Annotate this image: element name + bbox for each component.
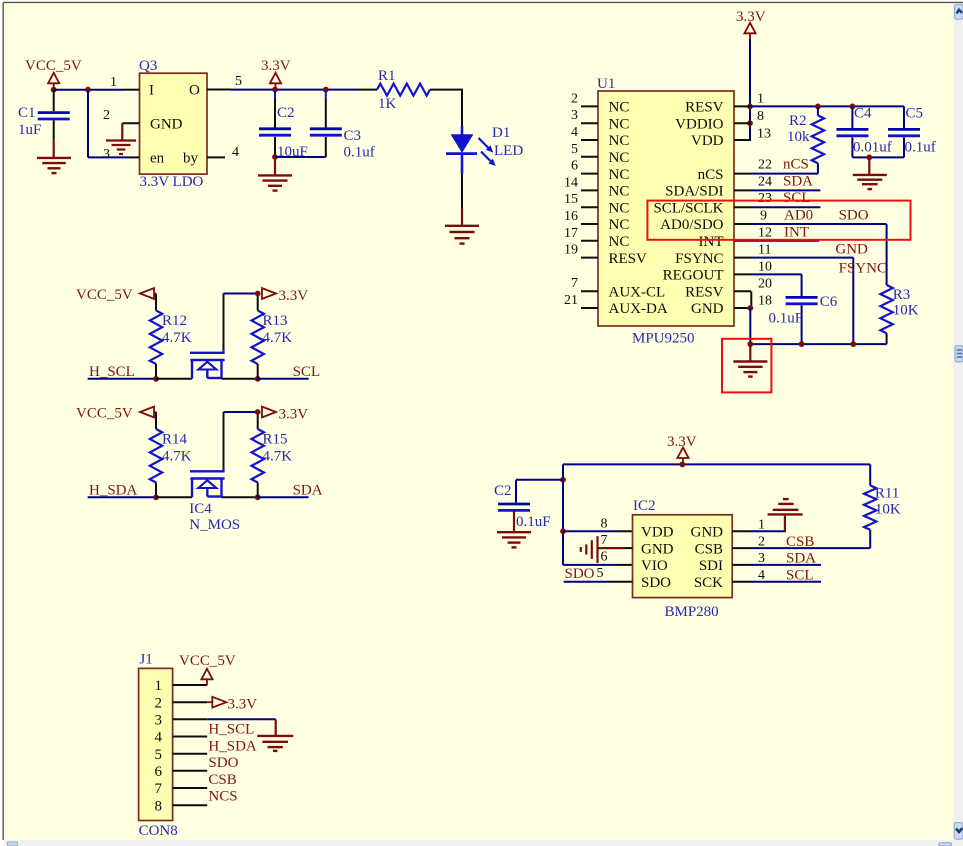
svg-text:4: 4 bbox=[232, 145, 239, 160]
junction SCL node bbox=[255, 376, 261, 382]
svg-text:SCK: SCK bbox=[694, 575, 723, 591]
net label SCL bbox=[783, 190, 811, 206]
svg-text:3.3V: 3.3V bbox=[667, 434, 697, 450]
svg-text:5: 5 bbox=[155, 747, 163, 763]
pin number 2 (Q3) bbox=[103, 108, 110, 123]
pin number 6 (IC2) bbox=[601, 550, 608, 565]
comment BMP280 bbox=[665, 604, 719, 620]
svg-text:16: 16 bbox=[564, 209, 578, 224]
svg-text:VCC_5V: VCC_5V bbox=[179, 653, 236, 669]
wire GND rail bbox=[750, 308, 886, 344]
IC2 pin1 stub bbox=[732, 530, 749, 532]
designator Q3 bbox=[139, 58, 157, 74]
Q3 pin name en bbox=[150, 151, 165, 167]
svg-text:11: 11 bbox=[758, 243, 771, 258]
comment 3.3V LDO bbox=[140, 174, 204, 190]
junction at Q3 input branch bbox=[85, 87, 91, 93]
IC2 pin name GND bbox=[641, 541, 674, 557]
IC2 pin name VIO bbox=[641, 558, 668, 574]
label R3 bbox=[893, 287, 911, 303]
U1 left pin numbers bbox=[564, 91, 578, 308]
svg-text:17: 17 bbox=[564, 226, 578, 241]
svg-text:INT: INT bbox=[699, 234, 724, 250]
wire SCL bbox=[258, 378, 309, 380]
svg-text:I: I bbox=[149, 83, 154, 99]
wire VCC to R12 bbox=[155, 294, 157, 311]
svg-text:SDA: SDA bbox=[783, 174, 813, 190]
svg-text:VDD: VDD bbox=[641, 525, 674, 541]
svg-text:H_SCL: H_SCL bbox=[208, 722, 254, 738]
capacitor C3 bbox=[310, 90, 342, 157]
pin number 13 (U1) bbox=[757, 127, 771, 142]
svg-text:IC2: IC2 bbox=[633, 498, 656, 514]
wire LED to ground bbox=[461, 174, 463, 226]
svg-text:3: 3 bbox=[155, 713, 163, 729]
U1 left pin stubs bbox=[581, 106, 598, 308]
power label VCC_5V (J1) bbox=[179, 653, 236, 669]
IC IC2 body bbox=[633, 515, 733, 598]
svg-text:by: by bbox=[183, 151, 199, 167]
junction H_SDA node bbox=[153, 494, 159, 500]
svg-text:0.01uf: 0.01uf bbox=[853, 140, 892, 156]
junction rail at FSYNC bbox=[850, 341, 856, 347]
Q3 pin name I bbox=[149, 83, 154, 99]
power label 3.3V at C2 bbox=[261, 58, 291, 74]
net label nCS bbox=[783, 157, 809, 173]
svg-text:AUX-CL: AUX-CL bbox=[609, 284, 666, 300]
pin number 5 (Q3) bbox=[235, 74, 242, 89]
junction 3.3V BMP bbox=[680, 462, 686, 468]
wire H_SCL bbox=[88, 378, 156, 380]
regulator U Q3 body bbox=[140, 73, 208, 174]
label C2 (BMP) bbox=[494, 483, 512, 499]
capacitor C1 bbox=[38, 90, 70, 158]
svg-text:8: 8 bbox=[155, 798, 163, 814]
svg-text:C2: C2 bbox=[494, 483, 512, 499]
svg-text:O: O bbox=[189, 83, 200, 99]
resistor R3 bbox=[880, 285, 892, 344]
capacitor C2 bbox=[259, 90, 291, 157]
svg-text:VCC_5V: VCC_5V bbox=[76, 406, 133, 422]
pin number 24 bbox=[758, 175, 772, 190]
svg-text:3.3V: 3.3V bbox=[228, 697, 258, 713]
svg-text:1K: 1K bbox=[378, 96, 397, 112]
net label SDO (J1) bbox=[208, 755, 238, 771]
power symbol VCC_5V arrow (H_SDA) bbox=[140, 407, 156, 418]
svg-text:1: 1 bbox=[757, 92, 764, 107]
junction at C2 bottom bbox=[272, 154, 278, 160]
IC2 pin7 stub bbox=[625, 547, 633, 549]
power label VCC_5V (H_SCL) bbox=[76, 287, 133, 303]
svg-text:SDO: SDO bbox=[565, 566, 595, 582]
scrollbar button up bbox=[955, 4, 963, 19]
svg-text:CSB: CSB bbox=[695, 541, 723, 557]
svg-text:18: 18 bbox=[758, 294, 772, 309]
comment CON8 bbox=[139, 823, 178, 839]
junction VDD branch bbox=[560, 528, 566, 534]
label 0.1uf bbox=[344, 145, 375, 161]
svg-text:NC: NC bbox=[609, 150, 630, 166]
label 1uF bbox=[18, 122, 41, 138]
wire to VDD pin8 bbox=[563, 530, 633, 532]
net label INT bbox=[784, 225, 809, 241]
pin number 18 bbox=[758, 294, 772, 309]
svg-text:GND: GND bbox=[691, 525, 724, 541]
svg-text:0.1uF: 0.1uF bbox=[516, 514, 551, 530]
power symbol 3.3V arrow (SCL) bbox=[262, 288, 276, 299]
designator J1 bbox=[139, 652, 152, 668]
svg-text:NC: NC bbox=[609, 133, 630, 149]
label R2 bbox=[789, 113, 807, 129]
highlight rect ground bbox=[722, 339, 771, 393]
svg-text:10K: 10K bbox=[893, 303, 919, 319]
svg-text:SDO: SDO bbox=[208, 755, 238, 771]
svg-text:20: 20 bbox=[758, 277, 772, 292]
resistor R13 bbox=[252, 294, 264, 379]
svg-text:C5: C5 bbox=[906, 106, 924, 122]
power label 3.3V at MPU bbox=[736, 9, 766, 25]
pin number 8 (U1) bbox=[757, 109, 764, 124]
svg-text:nCS: nCS bbox=[698, 167, 724, 183]
power label VCC_5V (H_SDA) bbox=[76, 406, 133, 422]
power flag VCC_5V (net label) bbox=[25, 58, 82, 74]
svg-text:VDD: VDD bbox=[691, 133, 724, 149]
scrollbar button down bbox=[954, 823, 963, 840]
svg-text:H_SDA: H_SDA bbox=[208, 739, 257, 755]
svg-text:IC4: IC4 bbox=[189, 501, 212, 517]
svg-text:VIO: VIO bbox=[641, 558, 668, 574]
svg-text:10K: 10K bbox=[875, 502, 901, 518]
svg-text:1uF: 1uF bbox=[18, 122, 41, 138]
ground under D1 bbox=[445, 226, 479, 244]
svg-text:H_SCL: H_SCL bbox=[89, 364, 135, 380]
svg-text:GND: GND bbox=[150, 117, 183, 133]
svg-text:INT: INT bbox=[784, 225, 809, 241]
svg-text:0.1uF: 0.1uF bbox=[769, 311, 804, 327]
wire FSYNC row down bbox=[751, 258, 853, 345]
ground at J1 pin3 bbox=[257, 736, 293, 751]
power symbol VCC_5V J1 bbox=[201, 669, 212, 685]
svg-text:GND: GND bbox=[641, 541, 674, 557]
net label SDA (BMP) bbox=[786, 551, 816, 567]
junction pin18 GND node bbox=[747, 305, 753, 311]
svg-text:2: 2 bbox=[571, 91, 578, 106]
svg-text:VDDIO: VDDIO bbox=[675, 116, 723, 132]
wire to VIO pin6 bbox=[563, 564, 633, 566]
wire nCS row bbox=[751, 173, 818, 175]
resistor R12 bbox=[150, 311, 162, 379]
svg-text:1: 1 bbox=[110, 75, 117, 90]
net label H_SDA bbox=[89, 483, 138, 499]
svg-text:R11: R11 bbox=[875, 486, 899, 502]
svg-text:13: 13 bbox=[757, 127, 771, 142]
svg-text:R3: R3 bbox=[893, 287, 911, 303]
svg-text:SDO: SDO bbox=[641, 575, 671, 591]
svg-text:U1: U1 bbox=[597, 76, 615, 92]
wire 3.3V down to VDD bbox=[750, 39, 751, 140]
ground rotated at pin7 bbox=[581, 536, 625, 563]
junction rail at C6 bbox=[799, 341, 805, 347]
net label GND (FSYNC row) bbox=[835, 242, 868, 258]
label 4.7K (R15) bbox=[263, 449, 293, 465]
svg-text:3.3V: 3.3V bbox=[279, 407, 309, 423]
svg-text:FSYNC: FSYNC bbox=[839, 261, 887, 277]
svg-text:NC: NC bbox=[609, 100, 630, 116]
pin number 1 (U1) bbox=[757, 92, 764, 107]
svg-text:SDO: SDO bbox=[839, 208, 869, 224]
svg-text:NC: NC bbox=[609, 234, 630, 250]
comment MPU9250 bbox=[632, 331, 695, 347]
pin number 23 bbox=[758, 191, 772, 206]
wire pin20 RESV jog down bbox=[750, 291, 752, 308]
wire 3.3V rail to gate (SCL) bbox=[224, 294, 258, 353]
svg-text:BMP280: BMP280 bbox=[665, 604, 719, 620]
highlight rect SCL/AD0 bbox=[647, 201, 910, 240]
wire H_SDA to MOSFET bbox=[156, 496, 192, 498]
pin number 7 (IC2) bbox=[601, 533, 608, 548]
label R11 bbox=[875, 486, 899, 502]
ground at Q3 pin2 bbox=[106, 123, 136, 154]
svg-text:GND: GND bbox=[691, 301, 724, 317]
ground under C1 bbox=[37, 158, 71, 173]
wire H_SCL to MOSFET bbox=[156, 378, 192, 380]
label 0.1uF (BMP) bbox=[516, 514, 551, 530]
junction C4 top bbox=[850, 104, 856, 110]
power symbol VCC_5V arrow bbox=[48, 73, 59, 90]
svg-text:en: en bbox=[150, 151, 165, 167]
label C2 bbox=[277, 105, 295, 121]
label 0.1uf (C5) bbox=[905, 140, 936, 156]
svg-text:nCS: nCS bbox=[783, 157, 809, 173]
svg-text:SCL: SCL bbox=[783, 190, 811, 206]
net label AD0 bbox=[784, 208, 813, 224]
svg-text:4: 4 bbox=[155, 730, 163, 746]
svg-text:19: 19 bbox=[564, 243, 578, 258]
label 4.7K (R14) bbox=[162, 449, 192, 465]
net label NCS (J1) bbox=[208, 789, 237, 805]
Q3 pin 4 stub bbox=[207, 156, 225, 158]
svg-text:RESV: RESV bbox=[685, 284, 724, 300]
pin number 9 bbox=[760, 209, 767, 224]
pin number 8 (IC2) bbox=[601, 517, 608, 532]
label 4.7K (R12) bbox=[162, 330, 192, 346]
wire Q3 output to R1 bbox=[231, 89, 357, 91]
svg-text:3: 3 bbox=[758, 551, 765, 566]
IC2 pin name VDD bbox=[641, 525, 674, 541]
label R12 bbox=[162, 313, 187, 329]
junction MPU pin1 node bbox=[747, 104, 753, 110]
wire SDO pin5 bbox=[564, 581, 633, 583]
label 4.7K (R13) bbox=[263, 330, 293, 346]
pin number 4 (IC2) bbox=[758, 568, 765, 583]
svg-text:10k: 10k bbox=[787, 129, 810, 145]
J1 pin stubs bbox=[173, 685, 208, 805]
wire 3.3V rail to gate (SDA) bbox=[224, 412, 258, 471]
svg-text:SCL: SCL bbox=[293, 364, 321, 380]
svg-text:R13: R13 bbox=[263, 313, 288, 329]
svg-text:R1: R1 bbox=[378, 68, 396, 84]
svg-text:FSYNC: FSYNC bbox=[675, 251, 723, 267]
net label FSYNC bbox=[839, 261, 887, 277]
capacitor C2 (BMP) bbox=[498, 504, 530, 532]
pin number 1 (Q3) bbox=[110, 75, 117, 90]
svg-text:7: 7 bbox=[571, 276, 578, 291]
svg-text:1: 1 bbox=[155, 678, 163, 694]
net label CSB (J1) bbox=[208, 772, 236, 788]
wire SDA bbox=[258, 496, 309, 498]
svg-text:NC: NC bbox=[609, 217, 630, 233]
wire R1 to LED bbox=[461, 89, 463, 126]
IC2 pin name GND right bbox=[691, 525, 724, 541]
ground under C4 C5 bbox=[853, 157, 887, 189]
IC2 pin name SDO bbox=[641, 575, 671, 591]
svg-text:22: 22 bbox=[758, 158, 772, 173]
svg-text:5: 5 bbox=[235, 74, 242, 89]
svg-text:NC: NC bbox=[609, 167, 630, 183]
U1 right pin names bbox=[653, 100, 723, 318]
wire SDA row BMP bbox=[749, 564, 821, 566]
junction R2 top bbox=[815, 104, 821, 110]
svg-text:23: 23 bbox=[758, 191, 772, 206]
svg-text:24: 24 bbox=[758, 175, 772, 190]
net label CSB (BMP) bbox=[786, 534, 814, 550]
net label SCL bbox=[293, 364, 321, 380]
Q3 pin name by bbox=[183, 151, 199, 167]
svg-text:Q3: Q3 bbox=[139, 58, 157, 74]
svg-text:15: 15 bbox=[564, 192, 578, 207]
resistor R14 bbox=[150, 429, 162, 497]
Q3 pin 2 stub bbox=[122, 122, 139, 124]
flipped ground at IC2 pin1 bbox=[768, 499, 803, 531]
ground under MPU rail bbox=[733, 344, 767, 377]
svg-text:8: 8 bbox=[757, 109, 764, 124]
svg-text:REGOUT: REGOUT bbox=[663, 268, 724, 284]
IC2 pin4 stub bbox=[732, 581, 749, 583]
pin number 4 (Q3) bbox=[232, 145, 239, 160]
svg-text:C2: C2 bbox=[277, 105, 295, 121]
junction H_SCL node bbox=[153, 376, 159, 382]
label C1 bbox=[18, 105, 36, 121]
junction at C3 top bbox=[323, 87, 329, 93]
svg-text:AUX-DA: AUX-DA bbox=[609, 301, 668, 317]
label R14 bbox=[162, 432, 188, 448]
svg-text:4.7K: 4.7K bbox=[263, 330, 293, 346]
wire CSB row to R11 bbox=[749, 547, 870, 549]
power label 3.3V (SDA) bbox=[279, 407, 309, 423]
power symbol 3.3V arrow bbox=[270, 73, 281, 90]
LED D1 bbox=[446, 126, 496, 174]
pin number 3 (IC2) bbox=[758, 551, 765, 566]
svg-text:AD0: AD0 bbox=[784, 208, 813, 224]
label LED bbox=[494, 143, 523, 159]
svg-text:MPU9250: MPU9250 bbox=[632, 331, 695, 347]
wire AD0/SDO row to R3 bbox=[751, 224, 887, 285]
svg-text:14: 14 bbox=[564, 175, 578, 190]
svg-text:C3: C3 bbox=[344, 128, 362, 144]
pin number 2 (IC2) bbox=[758, 535, 765, 550]
net label SDA bbox=[783, 174, 813, 190]
svg-text:3: 3 bbox=[571, 108, 578, 123]
wire REGOUT row to C6 bbox=[751, 274, 802, 296]
svg-text:7: 7 bbox=[601, 533, 608, 548]
junction SDA node bbox=[255, 494, 261, 500]
net label SCL (BMP) bbox=[786, 568, 814, 584]
svg-text:J1: J1 bbox=[139, 652, 152, 668]
junction C2b branch bbox=[560, 477, 566, 483]
svg-text:3: 3 bbox=[103, 147, 110, 162]
Q3 pin 5 stub bbox=[207, 89, 231, 91]
svg-text:VCC_5V: VCC_5V bbox=[76, 287, 133, 303]
net label H_SCL bbox=[89, 364, 135, 380]
wire INT row bbox=[751, 240, 819, 242]
net label SDO (BMP) bbox=[565, 566, 595, 582]
resistor R11 bbox=[864, 464, 876, 548]
wire H_SCL J1 to ground bbox=[207, 719, 276, 736]
svg-text:D1: D1 bbox=[492, 125, 510, 141]
svg-text:0.1uf: 0.1uf bbox=[344, 145, 375, 161]
svg-text:6: 6 bbox=[601, 550, 608, 565]
svg-text:C4: C4 bbox=[854, 106, 872, 122]
wire C2 bottom to C3 bottom bbox=[275, 156, 326, 158]
junction MPU pin8 node bbox=[747, 120, 753, 126]
svg-text:NC: NC bbox=[609, 200, 630, 216]
svg-text:GND: GND bbox=[835, 242, 868, 258]
scrollbar button bottom-left bbox=[7, 842, 17, 846]
wire branch down to en bbox=[88, 90, 129, 158]
svg-text:H_SDA: H_SDA bbox=[89, 483, 138, 499]
pin number 3 (Q3) bbox=[103, 147, 110, 162]
pin number 12 bbox=[758, 226, 772, 241]
pin number 1 (IC2) bbox=[758, 518, 765, 533]
power symbol 3.3V arrow (SDA) bbox=[262, 407, 276, 418]
power symbol VCC_5V arrow (H_SCL) bbox=[140, 288, 156, 299]
capacitor C5 bbox=[888, 106, 920, 157]
svg-text:CON8: CON8 bbox=[139, 823, 178, 839]
svg-text:5: 5 bbox=[571, 142, 578, 157]
Q3 pin name O bbox=[189, 83, 200, 99]
pin number 10 bbox=[758, 260, 772, 275]
resistor R2 bbox=[812, 106, 824, 173]
svg-text:21: 21 bbox=[564, 293, 578, 308]
svg-text:SDA: SDA bbox=[293, 483, 323, 499]
svg-text:SDI: SDI bbox=[699, 558, 723, 574]
power label 3.3V (SCL) bbox=[279, 288, 309, 304]
label C3 bbox=[344, 128, 362, 144]
IC2 pin3 stub bbox=[732, 564, 749, 566]
junction at C1 top node bbox=[51, 87, 57, 93]
svg-text:NC: NC bbox=[609, 116, 630, 132]
svg-text:5: 5 bbox=[597, 566, 604, 581]
label 10k bbox=[787, 129, 810, 145]
wire VCC_5V node to Q3 pin1 bbox=[54, 89, 125, 91]
label C5 bbox=[906, 106, 924, 122]
wire SDA row bbox=[751, 189, 820, 191]
svg-text:RESV: RESV bbox=[609, 251, 648, 267]
wire C4 C5 bottoms bbox=[852, 156, 904, 158]
connector J1 body bbox=[139, 668, 173, 820]
wire BMP left drop bbox=[562, 464, 564, 565]
pin number 5 (IC2) bbox=[597, 566, 604, 581]
U1 left pin names bbox=[609, 100, 668, 318]
IC U1 body bbox=[598, 91, 734, 326]
junction C4C5 ground bbox=[866, 155, 872, 161]
ground under C2 bbox=[258, 157, 292, 191]
resistor R1 bbox=[357, 84, 463, 96]
svg-text:10: 10 bbox=[758, 260, 772, 275]
power symbol 3.3V BMP bbox=[677, 448, 688, 465]
svg-text:C1: C1 bbox=[18, 105, 36, 121]
designator IC2 bbox=[633, 498, 656, 514]
